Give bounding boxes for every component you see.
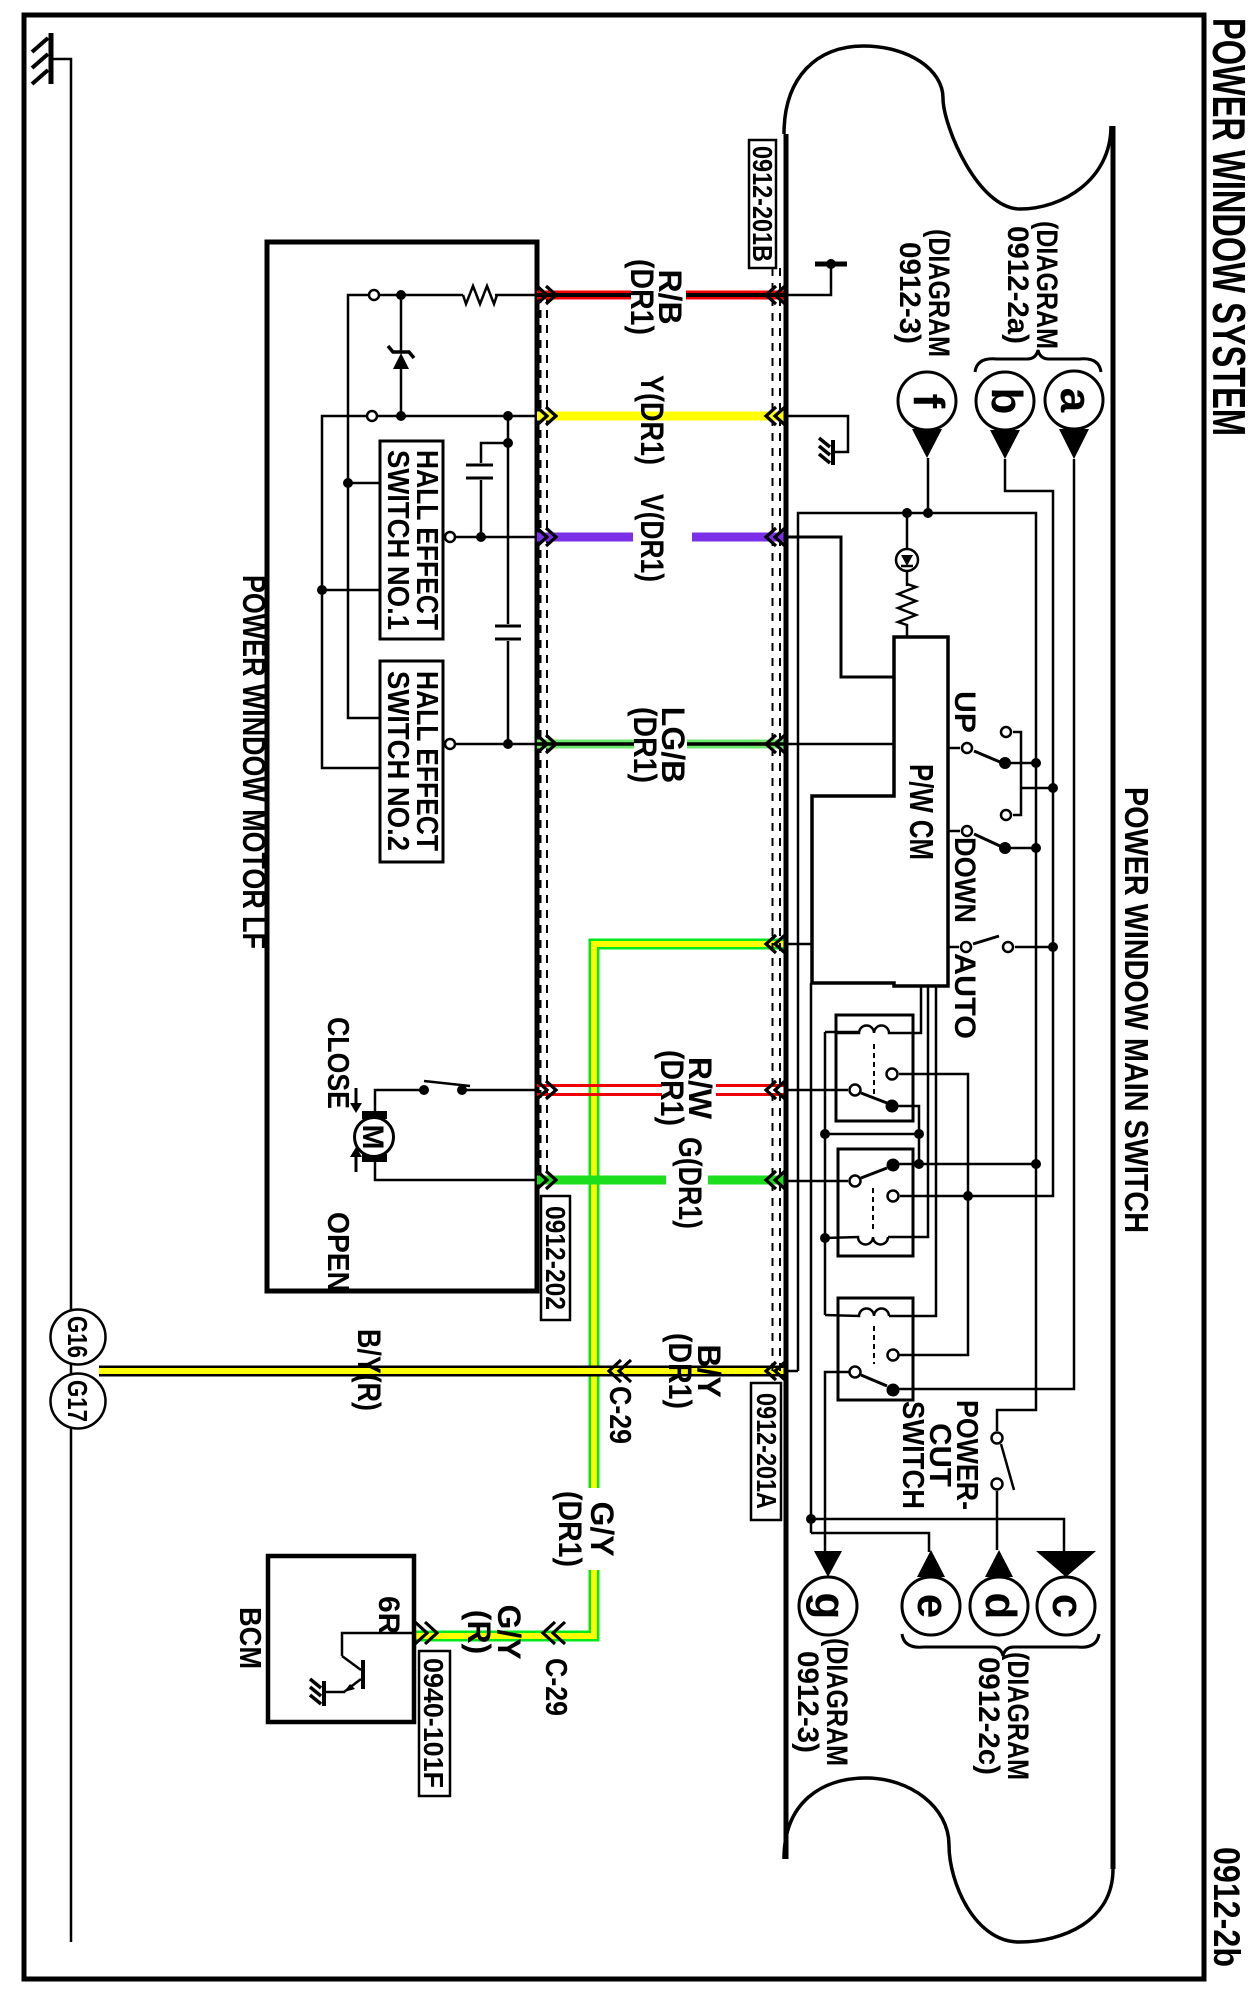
wire V (DR1) <box>537 533 784 542</box>
svg-text:AUTO: AUTO <box>948 953 981 1039</box>
G/Y internal stub to P/W CM extension <box>786 943 812 946</box>
G internal line from motor <box>375 1162 537 1180</box>
LED D1 with resistor to P/W CM <box>906 513 909 549</box>
svg-text:(DR1): (DR1) <box>662 1333 698 1409</box>
motor internal: Y branch line <box>322 416 537 768</box>
ground rail (B/Y) along bottom <box>798 513 1036 1431</box>
svg-text:Y(DR1): Y(DR1) <box>634 375 670 465</box>
svg-text:POWER WINDOW MOTOR LF: POWER WINDOW MOTOR LF <box>236 575 272 949</box>
svg-text:G16: G16 <box>62 1316 93 1358</box>
svg-text:(DIAGRAM: (DIAGRAM <box>1030 221 1063 349</box>
svg-text:0912-2b: 0912-2b <box>1206 1847 1247 1967</box>
V internal line with pin circle <box>455 536 537 539</box>
label 0940-101F <box>418 1651 450 1796</box>
UP throw contacts bracket <box>1001 727 1011 737</box>
R/W internal stub to relay 1 <box>786 1089 848 1092</box>
LG/B internal line with pin circle <box>455 743 537 746</box>
transistor Q in BCM <box>325 1656 363 1692</box>
connector label 0912-202 <box>540 1196 571 1320</box>
ground bus wire <box>53 59 71 1942</box>
svg-text:b: b <box>982 388 1031 415</box>
connector label 0912-201A <box>751 1383 782 1520</box>
node zener top <box>396 290 406 300</box>
wire G (DR1) <box>537 1176 784 1185</box>
relay 3 lever <box>850 1367 861 1378</box>
node f/LED rail dots <box>923 508 933 518</box>
circle g with arrow <box>814 1551 842 1577</box>
svg-text:(DIAGRAM: (DIAGRAM <box>820 1638 853 1766</box>
main switch box top edge <box>1111 126 1116 1869</box>
svg-text:(R): (R) <box>461 1610 497 1654</box>
svg-text:(DR1): (DR1) <box>627 707 663 783</box>
Y internal stub to ground <box>786 416 848 452</box>
wire B/Y from G16/G17 to main switch <box>99 1366 784 1377</box>
node: hall supply rail dot <box>343 478 353 488</box>
LG/B internal stub to P/W CM <box>786 743 894 746</box>
main switch box bottom edge <box>784 134 789 1859</box>
svg-text:d: d <box>976 1593 1025 1620</box>
svg-text:0940-101F: 0940-101F <box>418 1658 449 1788</box>
relay 1 lever <box>850 1085 861 1096</box>
svg-text:C-29: C-29 <box>603 1386 638 1444</box>
svg-text:0912-3): 0912-3) <box>791 1651 824 1753</box>
main switch box torn left edge <box>784 46 1111 209</box>
coil rail <box>824 1032 827 1315</box>
BCM box <box>268 1556 414 1722</box>
connector chevron R/W at motor <box>537 1081 556 1099</box>
svg-text:f: f <box>904 394 953 409</box>
motor M <box>355 1111 394 1162</box>
svg-text:a: a <box>1051 388 1100 413</box>
hall effect switch no.1 box <box>380 441 445 639</box>
circle d with arrow <box>985 1550 1013 1577</box>
capacitor C1 branch to V <box>503 438 513 448</box>
connector chevron R/W at main switch <box>766 1081 785 1099</box>
svg-text:B/Y(R): B/Y(R) <box>351 1329 387 1411</box>
wire relay 3 lever pin to circle g <box>825 1372 849 1551</box>
relay 3 throw contact <box>888 1350 899 1361</box>
P/W CM box <box>812 637 948 986</box>
ground symbol left <box>32 33 51 84</box>
svg-text:C-29: C-29 <box>539 1658 574 1716</box>
relay 1 box <box>836 1015 913 1121</box>
wire to circle e from P/W CM extension net <box>811 1533 929 1552</box>
relay 2 tip link to ground bus <box>897 1163 1036 1166</box>
svg-text:G17: G17 <box>62 1380 93 1422</box>
resistor R (LED) <box>898 584 916 637</box>
connector chevron G at main switch <box>766 1171 785 1189</box>
chevron at BCM 6R pin <box>415 1622 437 1644</box>
svg-text:P/W CM: P/W CM <box>903 764 940 860</box>
hall effect switch no.2 box <box>380 661 445 862</box>
power cut switch <box>992 1433 1003 1444</box>
brace for a,b <box>975 350 1101 372</box>
svg-text:M: M <box>356 1125 389 1150</box>
connector chevron R/B at motor <box>537 286 556 304</box>
wires P/W CM to relay coils <box>913 986 921 1033</box>
circle c with arrow <box>1036 1551 1096 1577</box>
svg-text:0912-3): 0912-3) <box>893 242 926 344</box>
relay 2 coil <box>825 1237 888 1245</box>
svg-text:SWITCH: SWITCH <box>896 1401 931 1509</box>
wire f to rail <box>927 458 930 513</box>
ground symbol (Y in switch) <box>819 438 833 465</box>
connector chevron Y at main switch <box>766 407 785 425</box>
svg-text:(DIAGRAM: (DIAGRAM <box>922 229 955 357</box>
brace for c,d,e <box>902 1634 1099 1656</box>
connector chevron R/B at main switch <box>766 286 785 304</box>
wire R/B (DR1) <box>537 291 784 300</box>
connector C-29 chevron on G/Y near BCM <box>543 1622 565 1644</box>
open circle on R/B rail <box>369 290 379 300</box>
dashed connector line pair (motor side) <box>546 295 548 1183</box>
relay 1 coil <box>836 1026 913 1034</box>
wire R/W (DR1) <box>537 1086 784 1095</box>
svg-text:G(DR1): G(DR1) <box>672 1137 708 1229</box>
svg-text:CLOSE: CLOSE <box>321 1017 356 1109</box>
connector chevron Y at motor <box>537 407 556 425</box>
svg-text:0912-201A: 0912-201A <box>751 1393 782 1509</box>
connector chevron LG/B at motor <box>537 735 556 753</box>
wire power cut to d <box>996 1491 999 1550</box>
connector chevron LG/B at main switch <box>766 735 785 753</box>
wire P/W CM extension to c and e <box>810 983 813 1533</box>
svg-text:0912-202: 0912-202 <box>540 1206 571 1310</box>
wire to hall switch no.1 <box>348 482 380 485</box>
connector chevron B/Y at main switch <box>766 1362 785 1380</box>
svg-text:SWITCH NO.1: SWITCH NO.1 <box>381 450 416 630</box>
svg-text:POWER WINDOW SYSTEM: POWER WINDOW SYSTEM <box>1203 18 1249 436</box>
svg-text:0912-2a): 0912-2a) <box>1001 226 1034 344</box>
dashed connector line pair (main switch side) <box>779 268 781 1371</box>
svg-text:(DIAGRAM: (DIAGRAM <box>1001 1652 1034 1780</box>
wire b to bus <box>900 459 1053 1196</box>
motor internal: R/B branch line <box>495 294 537 297</box>
resistor R (motor) <box>463 286 497 304</box>
zener diode ZD <box>388 295 414 416</box>
connector chevron G/Y at main switch <box>766 935 785 953</box>
svg-text:(DR1): (DR1) <box>624 259 660 335</box>
connector chevron V at main switch <box>766 528 785 546</box>
G internal stub to relay 2 <box>786 1180 848 1183</box>
coil rail riser <box>825 1133 919 1136</box>
connector chevron G at motor <box>537 1171 556 1189</box>
wire LG/B (DR1) <box>537 740 784 749</box>
R/W internal line + close/open switch <box>466 1089 537 1092</box>
R/B internal stub + battery feed bar <box>786 264 831 295</box>
svg-text:6R: 6R <box>372 1596 405 1635</box>
relay 2 box <box>838 1149 913 1256</box>
svg-text:(DR1): (DR1) <box>654 1050 690 1126</box>
BCM ground symbol <box>310 1679 324 1706</box>
connector label 0912-201B <box>747 140 778 268</box>
connector C-29 chevron on B/Y <box>609 1360 631 1382</box>
relay 1 throw link to relays 2,3 <box>899 1074 968 1355</box>
relay 1 tip link <box>892 1106 919 1164</box>
svg-text:V(DR1): V(DR1) <box>634 494 670 582</box>
B/Y internal stub joins ground rail <box>786 1370 798 1373</box>
svg-text:UP: UP <box>948 691 981 733</box>
relay 2 lever <box>850 1176 861 1187</box>
svg-text:0912-201B: 0912-201B <box>747 146 778 262</box>
svg-text:0912-2c): 0912-2c) <box>972 1657 1005 1775</box>
svg-text:c: c <box>1043 1594 1092 1618</box>
svg-text:DOWN: DOWN <box>948 837 981 923</box>
V internal stub to P/W CM <box>786 537 894 677</box>
main switch box torn right edge <box>784 1778 1113 1942</box>
relay 3 box <box>838 1298 913 1400</box>
svg-text:OPEN: OPEN <box>321 1212 356 1292</box>
svg-text:POWER WINDOW MAIN SWITCH: POWER WINDOW MAIN SWITCH <box>1118 787 1155 1233</box>
svg-text:BCM: BCM <box>233 1607 268 1669</box>
capacitor C2 line from Y to LG/B <box>507 416 510 624</box>
circle b with arrow <box>976 372 1034 430</box>
relay 1 throw contact <box>887 1069 898 1080</box>
svg-text:G/Y: G/Y <box>584 1501 620 1556</box>
wire Y (DR1) <box>537 412 784 421</box>
circle f with arrow <box>898 372 956 430</box>
svg-text:SWITCH NO.2: SWITCH NO.2 <box>381 671 416 851</box>
svg-text:(DR1): (DR1) <box>552 1491 588 1567</box>
wire a to bus <box>899 459 1074 1389</box>
circle e with arrow <box>917 1550 945 1577</box>
wire G/Y from BCM to main switch <box>414 944 786 1636</box>
BCM internal wire to transistor <box>342 1633 414 1656</box>
relay 3 coil <box>825 1309 889 1317</box>
ground circles G16 G17 <box>51 1310 106 1365</box>
connector chevron V at motor <box>537 528 556 546</box>
svg-text:g: g <box>805 1593 854 1620</box>
relay 2 throw contact <box>888 1191 899 1202</box>
svg-text:e: e <box>908 1594 957 1618</box>
circle a with arrow <box>1045 371 1103 429</box>
relay 3 tip to a bus <box>893 1389 899 1390</box>
